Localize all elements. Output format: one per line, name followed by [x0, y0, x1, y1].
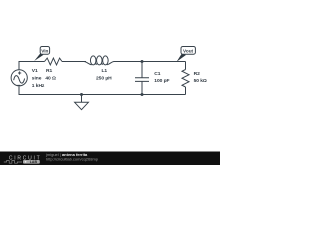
- wire top rail left: V1 top corner to R1: [19, 62, 45, 71]
- resistor R2: [182, 70, 189, 88]
- V1 minus sign: [17, 84, 20, 86]
- svg-text:40 Ω: 40 Ω: [45, 76, 56, 82]
- ground triangle: [75, 102, 89, 109]
- svg-text:100 pF: 100 pF: [154, 78, 169, 84]
- wire L1 to top-right corner: [114, 61, 186, 63]
- svg-text:R1: R1: [46, 68, 52, 74]
- footer bar: [0, 152, 220, 166]
- svg-text:C1: C1: [154, 71, 160, 77]
- inductor L1 loop 2: [97, 56, 103, 65]
- svg-text:1 kHz: 1 kHz: [32, 83, 45, 89]
- svg-text:50 kΩ: 50 kΩ: [194, 78, 207, 84]
- svg-text:Vin: Vin: [41, 49, 48, 54]
- inductor L1 lead-out: [107, 62, 114, 65]
- V1 sine symbol: [14, 76, 25, 84]
- svg-text:L1: L1: [102, 68, 108, 74]
- wire right branch top stub: [185, 62, 187, 70]
- svg-text:Vout: Vout: [183, 49, 194, 54]
- node dot bottom C1: [141, 93, 144, 96]
- node dot ground: [80, 93, 83, 96]
- inductor L1 cusp 1: [95, 63, 97, 64]
- svg-text:R2: R2: [194, 71, 200, 77]
- voltage source V1: [11, 70, 27, 86]
- flag Vin box: [40, 47, 49, 55]
- capacitor C1 wires: [141, 62, 143, 95]
- svg-text:sine: sine: [32, 76, 42, 82]
- footer logo waveform: [4, 161, 22, 164]
- wire R1 to L1: [62, 61, 86, 63]
- footer logo LAB badge: [23, 160, 40, 164]
- inductor L1 cusp 2: [101, 63, 103, 64]
- inductor L1 loop 1: [90, 56, 96, 65]
- footer logo LAB dot: [25, 161, 27, 163]
- svg-text:LAB: LAB: [30, 160, 38, 164]
- flag Vout box: [181, 47, 195, 55]
- svg-text:V1: V1: [32, 68, 38, 74]
- ground stub: [81, 95, 83, 103]
- wire bottom rail: [19, 87, 186, 95]
- capacitor C1 plates: [135, 78, 149, 82]
- svg-text:250 µH: 250 µH: [96, 76, 112, 82]
- inductor L1 loop 3: [103, 56, 109, 65]
- V1 plus sign: [18, 71, 21, 74]
- flag Vin pointer: [34, 53, 43, 61]
- wire right branch bottom stub: [185, 87, 187, 95]
- resistor R1: [45, 58, 63, 65]
- svg-text:http://circuitlab.com/cq268mp: http://circuitlab.com/cq268mp: [46, 157, 99, 162]
- inductor L1 lead-in: [84, 62, 92, 65]
- node dot top C1: [141, 60, 144, 63]
- flag Vout pointer: [177, 53, 186, 62]
